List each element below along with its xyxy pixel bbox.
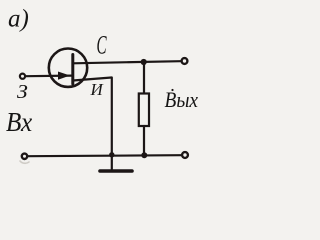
terminal bottom right (open circle) <box>182 152 188 158</box>
wire drain lead to output terminal <box>73 61 181 63</box>
transistor VT1 circle <box>49 48 87 86</box>
junction ground node <box>109 152 114 157</box>
wire resistor top lead <box>143 62 145 94</box>
svg-text:Вх: Вх <box>6 107 33 137</box>
transistor gate arrow <box>59 72 69 79</box>
scan smudge below-left terminal <box>20 161 29 163</box>
wire resistor bottom lead <box>143 126 145 156</box>
svg-text:З: З <box>17 80 28 103</box>
terminal input gate (open circle) <box>20 74 25 79</box>
svg-text:И: И <box>90 80 105 99</box>
transistor VT1 channel bar <box>71 55 74 85</box>
svg-text:а): а) <box>8 6 29 33</box>
wire source down to ground <box>111 78 113 170</box>
wire bottom rail <box>28 155 181 156</box>
junction resistor/bottom rail node <box>141 152 147 158</box>
terminal output top (open circle) <box>182 58 188 64</box>
resistor R (load) <box>139 94 149 127</box>
terminal bottom left (open circle) <box>22 154 27 159</box>
wire gate lead <box>26 74 72 77</box>
junction drain/resistor node <box>141 59 147 65</box>
dot over Вых label <box>171 89 173 91</box>
svg-text:С: С <box>97 30 108 59</box>
svg-text:Вых: Вых <box>165 89 199 112</box>
wire source lead <box>73 78 112 81</box>
ground bar <box>100 169 132 173</box>
